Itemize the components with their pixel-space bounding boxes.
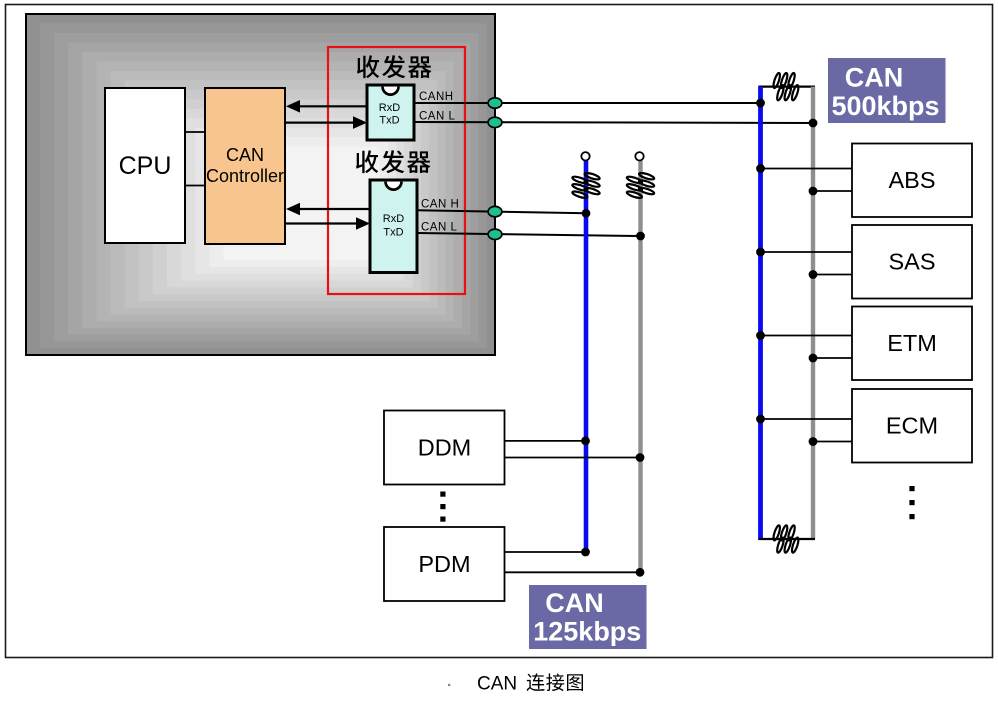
125k bus CANH terminator circle bbox=[581, 152, 589, 160]
wire U2 CAN L to 125k bus bbox=[417, 233, 641, 236]
wire ETM CANL bbox=[813, 357, 852, 359]
junction DDM CANL bbox=[636, 453, 645, 462]
junction U1 CANH on bus bbox=[756, 99, 765, 108]
ABS box bbox=[852, 144, 972, 218]
junction ECM CANL bbox=[809, 437, 818, 446]
wire ECM CANL bbox=[813, 441, 852, 443]
svg-text:ECM: ECM bbox=[886, 413, 938, 439]
junction U2 CANL bbox=[636, 232, 645, 241]
125k bus CANL terminating coil bbox=[626, 172, 655, 200]
125k bus CANL line (gray) bbox=[638, 161, 642, 573]
svg-text:PDM: PDM bbox=[418, 551, 470, 577]
node U2 CANH (green) bbox=[488, 206, 502, 216]
CAN controller box bbox=[205, 88, 285, 244]
svg-text:ETM: ETM bbox=[887, 330, 937, 356]
DDM box bbox=[384, 411, 505, 485]
junction DDM CANH bbox=[581, 437, 590, 446]
svg-text:125kbps: 125kbps bbox=[533, 617, 641, 647]
wire ETM CANH bbox=[761, 335, 853, 337]
svg-text:ABS: ABS bbox=[888, 167, 935, 193]
wire PDM CANH bbox=[505, 551, 586, 553]
red highlight box around transceivers bbox=[328, 47, 465, 294]
svg-text:RxD: RxD bbox=[383, 213, 404, 225]
wire U1 CANH to 500k bus bbox=[414, 102, 761, 104]
wire CPU-controller lower bbox=[185, 185, 205, 187]
svg-text:CPU: CPU bbox=[119, 152, 172, 180]
wire SAS CANL bbox=[813, 274, 852, 276]
label 收发器 (transceiver 1) bbox=[357, 55, 432, 78]
junction ABS CANH bbox=[756, 164, 765, 173]
junction ABS CANL bbox=[809, 187, 818, 196]
caption CAN 连接图 bbox=[477, 673, 583, 694]
ellipsis below ECM bbox=[909, 486, 914, 491]
svg-text:SAS: SAS bbox=[888, 249, 935, 275]
node U1 CANH (green) bbox=[488, 98, 502, 108]
junction ETM CANH bbox=[756, 331, 765, 340]
wire SAS CANH bbox=[761, 251, 853, 253]
junction U1 CANL on bus bbox=[809, 119, 818, 128]
node U1 CANL (green) bbox=[488, 117, 502, 127]
125k bus CANH terminating coil bbox=[572, 172, 601, 200]
wire controller TxD to U2 (arrow right) bbox=[285, 217, 370, 230]
node U2 CANL (green) bbox=[488, 229, 502, 239]
wire U1 RxD to controller (arrow left) bbox=[286, 100, 367, 113]
ECM box bbox=[852, 389, 972, 463]
CAN 125kbps label box bbox=[529, 585, 647, 649]
transceiver U1 box bbox=[367, 85, 414, 140]
svg-text:TxD: TxD bbox=[383, 227, 403, 239]
junction PDM CANH bbox=[581, 548, 590, 557]
500k bus CANL line (gray) bbox=[811, 87, 815, 539]
500k bus bottom wire bbox=[759, 538, 816, 540]
ETM box bbox=[852, 307, 972, 381]
125k bus CANL terminator circle bbox=[635, 152, 643, 160]
svg-text:500kbps: 500kbps bbox=[831, 91, 939, 121]
svg-text:CAN: CAN bbox=[477, 674, 517, 695]
caption stray dot bbox=[448, 684, 450, 686]
CAN 500kbps label box bbox=[828, 58, 946, 123]
svg-text:CAN H: CAN H bbox=[421, 199, 459, 211]
svg-text:Controller: Controller bbox=[206, 166, 284, 186]
wire PDM CANL bbox=[505, 571, 641, 573]
svg-text:CAN L: CAN L bbox=[419, 111, 455, 123]
ECU gradient panel bbox=[26, 14, 495, 355]
wire controller TxD to U1 (arrow right) bbox=[285, 116, 367, 129]
500k bus CANH line (blue) bbox=[758, 87, 763, 540]
500k bus top terminating coil bbox=[772, 72, 800, 101]
wire ABS CANL bbox=[813, 190, 852, 192]
svg-text:RxD: RxD bbox=[379, 102, 400, 114]
wire ECM CANH bbox=[761, 418, 853, 420]
svg-text:CANH: CANH bbox=[419, 91, 454, 103]
svg-text:TxD: TxD bbox=[379, 115, 399, 127]
junction SAS CANL bbox=[809, 270, 818, 279]
wire ABS CANH bbox=[761, 168, 853, 170]
label 收发器 (transceiver 2) bbox=[356, 150, 431, 173]
CPU box bbox=[105, 88, 185, 243]
PDM box bbox=[384, 527, 505, 601]
wire DDM CANL bbox=[505, 457, 641, 459]
svg-text:CAN: CAN bbox=[226, 145, 264, 165]
wire U2 RxD to controller (arrow left) bbox=[286, 203, 370, 216]
500k bus top wire bbox=[759, 85, 816, 87]
svg-text:CAN: CAN bbox=[545, 588, 604, 618]
transceiver U2 box bbox=[370, 180, 417, 273]
500k bus bottom terminating coil bbox=[772, 525, 800, 554]
svg-text:CAN: CAN bbox=[845, 63, 904, 93]
SAS box bbox=[852, 225, 972, 299]
junction SAS CANH bbox=[756, 248, 765, 257]
wire U1 CAN L to 500k bus bbox=[414, 122, 813, 123]
junction ECM CANH bbox=[756, 415, 765, 424]
125k bus CANH line (blue) bbox=[584, 161, 589, 553]
svg-text:DDM: DDM bbox=[418, 435, 472, 461]
junction U2 CANH bbox=[582, 209, 591, 218]
junction ETM CANL bbox=[809, 354, 818, 363]
svg-text:CAN L: CAN L bbox=[421, 222, 457, 234]
wire CPU-controller upper bbox=[185, 131, 205, 133]
wire U2 CAN H to 125k bus bbox=[417, 210, 586, 213]
wire DDM CANH bbox=[505, 440, 586, 442]
junction PDM CANL bbox=[636, 568, 645, 577]
ellipsis DDM/PDM bbox=[440, 492, 445, 497]
